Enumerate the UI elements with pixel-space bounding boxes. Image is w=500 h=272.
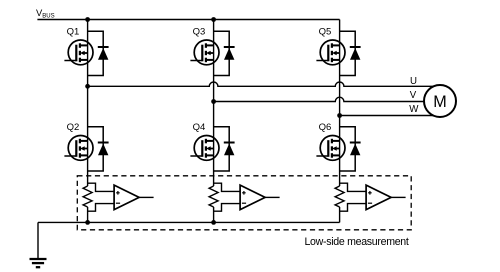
wire: leg 3 (Q5/Q6 half-bridge) shunt-to-ground lead (339, 207, 341, 222)
transistor Q4 (190, 136, 219, 161)
body diode of Q4 (214, 127, 235, 171)
wire: R3 top sense tap to U3 + input (340, 183, 367, 191)
node V: junction leg 2 / phase V (211, 99, 216, 104)
svg-text:Q3: Q3 (193, 26, 206, 37)
wire: ground branch (37, 222, 39, 258)
wire: op-amp U1 output (139, 196, 154, 198)
svg-text:W: W (409, 104, 419, 115)
wire: V_BUS bus rail (37, 19, 339, 21)
svg-text:Q5: Q5 (319, 26, 332, 37)
motor M (424, 85, 456, 117)
op-amp U2 (240, 185, 265, 210)
svg-text:Q6: Q6 (319, 122, 332, 133)
wire: R1 bottom sense tap to U1 - input (88, 204, 115, 212)
wire: vertical leg 3 (Q5/Q6 half-bridge) (339, 20, 341, 187)
wire: vertical leg 1 (Q1/Q2 half-bridge) (87, 20, 89, 187)
shunt resistor R2 (209, 186, 218, 207)
shunt resistor R3 (335, 186, 344, 207)
wire: phase W (340, 115, 434, 117)
node W: junction leg 3 / phase W (337, 113, 342, 118)
wire: R2 top sense tap to U2 + input (214, 183, 241, 191)
wire: op-amp U3 output (391, 196, 406, 198)
wire: ground rail (38, 221, 340, 223)
wire: R2 bottom sense tap to U2 - input (214, 204, 241, 212)
dashed box: low-side measurement region (77, 176, 411, 230)
svg-text:Low-side measurement: Low-side measurement (304, 236, 408, 248)
wire: R1 top sense tap to U1 + input (88, 183, 115, 191)
body diode of Q2 (88, 127, 109, 171)
wire: vertical leg 2 (Q3/Q4 half-bridge) (213, 20, 215, 187)
svg-text:Q1: Q1 (67, 26, 80, 37)
wire: leg 1 (Q1/Q2 half-bridge) shunt-to-ground lead (87, 207, 89, 222)
wire: phase U (hops over legs 2 and 3) (88, 82, 434, 86)
transistor Q6 (316, 136, 345, 161)
transistor Q3 (190, 40, 219, 65)
body diode of Q3 (214, 31, 235, 75)
svg-text:Q2: Q2 (67, 122, 80, 133)
ground (30, 259, 47, 267)
svg-text:Q4: Q4 (193, 122, 206, 133)
transistor Q1 (64, 40, 93, 65)
wire: phase V (hops over leg 3) (214, 97, 425, 101)
op-amp U1 (114, 185, 139, 210)
transistor Q2 (64, 136, 93, 161)
shunt resistor R1 (83, 186, 92, 207)
wire: leg 2 (Q3/Q4 half-bridge) shunt-to-ground lead (213, 207, 215, 222)
body diode of Q1 (88, 31, 109, 75)
svg-text:U: U (410, 76, 417, 87)
transistor Q5 (316, 40, 345, 65)
wire: R3 bottom sense tap to U3 - input (340, 204, 367, 212)
op-amp U3 (366, 185, 391, 210)
svg-text:V: V (410, 90, 417, 101)
wire: op-amp U2 output (265, 196, 280, 198)
svg-text:M: M (433, 93, 446, 111)
junction: R1 / ground rail (85, 220, 90, 225)
body diode of Q6 (340, 127, 361, 171)
junction: bus / leg 2 (211, 17, 216, 22)
node U: junction leg 1 / phase U (85, 84, 90, 89)
body diode of Q5 (340, 31, 361, 75)
junction: bus / leg 1 (85, 17, 90, 22)
junction: R2 / ground rail (211, 220, 216, 225)
